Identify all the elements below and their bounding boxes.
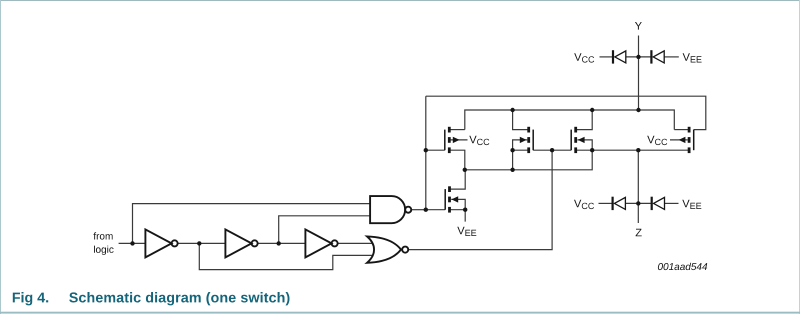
transistor T3 NMOS pass [571,127,584,153]
label VCC at T4 bulk [647,136,667,145]
junction U1 output branch [197,241,201,245]
inverter U1 [145,229,177,257]
junction T2 drain rail [510,108,514,112]
junction Z source line [636,148,640,152]
wire Z diode to node [626,202,652,204]
wire T5 gate [426,209,445,211]
junction pass gate drive [550,148,554,152]
diode D2 Y clamp to VEE [650,50,664,63]
wire route to NAND input B [279,216,370,244]
junction Y rail [636,108,640,112]
wire T5 bulk [451,199,465,209]
wire T3 bulk [577,140,592,150]
caption Fig 4. [13,292,48,305]
wire source line T3 to T4 [576,149,689,151]
wire outer rail to T4 gate [426,96,706,129]
caption title [69,292,289,305]
junction Z diodes [636,201,640,205]
wire inverter U3 output to NOR input A [337,242,372,244]
wire node Z vertical [637,150,639,223]
label VCC at T1 bulk [469,136,489,145]
wire T4 bulk from VCC [670,139,688,141]
wire from logic input [119,242,146,244]
label VCC at diode D1 [574,53,594,62]
label logic [94,246,114,255]
wire T1 gate [426,149,445,151]
wire T2 bulk [513,140,528,150]
junction T5 bulk source [463,208,467,212]
wire bottom line node Z [465,150,592,170]
wire NOR output rise to pass gates [408,150,552,249]
inverter U3 [305,229,337,257]
wire inner rail node Y bus [465,110,675,130]
junction NAND output [424,208,428,212]
label VEE at diode D4 [682,200,701,209]
junction T3 drain rail [590,108,594,112]
wire T2 T3 gate link [533,149,571,151]
junction T1 gate branch [424,148,428,152]
transistor T5 NMOS clamp (source to VEE) [445,186,458,212]
junction T3 bulk source [590,148,594,152]
wire T3 drain arm [576,110,593,130]
label VEE at T5 source [457,227,476,236]
label VCC at diode D3 [574,200,594,209]
junction Y diodes [636,55,640,59]
transistor T2 NMOS pass [520,127,533,153]
wire T5 source to VEE [450,210,466,222]
wire T4 drain arm [674,129,689,131]
diode D1 Y clamp to VCC [612,50,626,63]
wire bottom route to NOR input B [199,243,372,269]
junction T2 source bottom line [510,168,514,172]
wire node Y vertical [638,36,640,111]
node label Z [636,229,642,237]
transistor T4 PMOS pass (bulk to VCC) [679,127,694,153]
junction from logic branch [130,241,134,245]
diode D4 Z clamp to VEE [651,197,665,210]
NOR gate U5 [367,236,408,262]
wire inverter U1 output [178,242,226,244]
wire inverter U2 output [257,242,305,244]
wire T2 drain arm [513,110,529,130]
bottom bar [0,312,800,314]
junction T2 bulk source [510,148,514,152]
transistor T1 PMOS pass (bulk to VCC) [445,127,460,153]
wire Y diode row left [600,56,614,58]
label VEE at diode D2 [683,53,702,62]
wire NAND output [411,209,426,211]
junction U2 output branch [277,241,281,245]
junction T1 source T5 drain [463,168,467,172]
wire top route to NAND input A [133,204,371,244]
wire Z diode row left [599,202,613,204]
wire T2 source [513,150,529,170]
NAND gate U4 [370,196,411,223]
diode D3 Z clamp to VCC [612,197,626,210]
wire Z diode row right [665,202,679,204]
wire T1 source down [449,150,465,170]
wire Y diode to node [626,56,652,58]
wire NAND output rise [425,96,427,210]
wire T1 bulk to VCC [451,139,468,141]
wire T5 drain up [450,170,466,189]
label from [93,232,112,239]
inverter U2 [225,229,257,257]
wire Y diode row right [664,56,678,58]
node label Y [635,22,642,30]
wire T1 drain arm [449,129,465,131]
label 001aad544 [658,263,707,270]
